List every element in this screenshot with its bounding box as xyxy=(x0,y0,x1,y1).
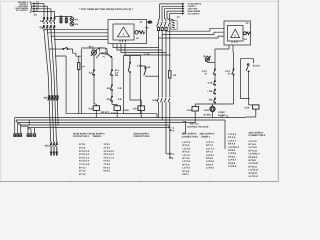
svg-text:U SEC: U SEC xyxy=(218,111,225,114)
wire aux tap xyxy=(55,16,73,18)
contact B5b xyxy=(208,97,215,104)
wire tap T1 xyxy=(50,36,108,37)
contact B7 xyxy=(246,64,260,72)
wire right rung bottom xyxy=(195,75,233,106)
svg-text:N↱B.6: N↱B.6 xyxy=(228,155,236,158)
enclosure box B xyxy=(124,56,141,114)
svg-text:-B5: -B5 xyxy=(208,99,213,102)
svg-text:L1↱PE2.4: L1↱PE2.4 xyxy=(249,153,261,156)
svg-text:N↱8.4: N↱8.4 xyxy=(206,163,213,166)
wire K12 rail xyxy=(249,72,253,105)
wire ctrl branch b stepped xyxy=(69,49,81,56)
transducer T1 xyxy=(108,20,147,44)
svg-text:AC SUPPLY: AC SUPPLY xyxy=(16,9,29,12)
coil K11 xyxy=(88,106,100,114)
svg-text:CONNECTOR-1: CONNECTOR-1 xyxy=(182,135,200,138)
svg-text:CONTROL VOLTAGE: CONTROL VOLTAGE xyxy=(187,126,209,129)
svg-text:-K5: -K5 xyxy=(106,98,111,101)
contact K14 right xyxy=(225,68,234,76)
svg-text:-B: -B xyxy=(204,73,207,76)
CT T2 xyxy=(147,16,180,24)
contact sensor out xyxy=(101,53,112,57)
wire Q5 out2 xyxy=(162,31,224,35)
frame left border xyxy=(0,1,2,181)
svg-text:PE↱7: PE↱7 xyxy=(183,173,190,176)
terminal row left xyxy=(14,134,36,137)
fuse F2 xyxy=(65,18,67,24)
wire ctl drop3 xyxy=(165,31,167,96)
svg-text:1A: 1A xyxy=(244,38,247,41)
wire right rail top xyxy=(214,60,216,68)
svg-text:L1↱A.9: L1↱A.9 xyxy=(249,146,258,149)
label block BOARD A xyxy=(15,1,32,13)
wire L3 drop xyxy=(50,9,52,18)
svg-text:TIMER-1: TIMER-1 xyxy=(92,135,102,138)
svg-text:CONTACTOR-2: CONTACTOR-2 xyxy=(133,135,150,138)
header 230V timer-1 xyxy=(200,133,215,139)
wire ladder bottom rail xyxy=(66,114,157,118)
svg-text:TIMER-1: TIMER-1 xyxy=(201,135,211,138)
svg-text:-M 1~: -M 1~ xyxy=(88,45,95,48)
svg-text:5↱3.1 4.6: 5↱3.1 4.6 xyxy=(79,156,90,159)
wire box B rail xyxy=(130,73,141,106)
arrester F5 xyxy=(70,18,79,22)
wire L3 in xyxy=(32,6,51,9)
junction dots T1 sec xyxy=(158,47,170,56)
svg-text:0↱4.6: 0↱4.6 xyxy=(79,173,86,176)
svg-text:L1↱B.14: L1↱B.14 xyxy=(249,175,259,178)
terminal list A xyxy=(79,143,90,176)
svg-text:-K13: -K13 xyxy=(132,108,138,111)
svg-text:7↱4.1 5.2: 7↱4.1 5.2 xyxy=(79,163,90,166)
coil K13 xyxy=(132,106,144,114)
enclosure box D xyxy=(240,59,253,99)
svg-text:5.B: 5.B xyxy=(118,98,122,101)
contact R2 c xyxy=(106,95,112,102)
svg-text:L1↱A.5: L1↱A.5 xyxy=(228,133,237,136)
svg-text:-C14: -C14 xyxy=(201,70,207,73)
contact LS2 xyxy=(141,66,160,77)
switch S4 xyxy=(39,18,55,24)
svg-text:CONNECTOR-2: CONNECTOR-2 xyxy=(249,134,267,137)
svg-text:3↱2.3 4.2: 3↱2.3 4.2 xyxy=(79,150,90,153)
wire stub N xyxy=(169,129,174,132)
svg-text:L1↱5.5: L1↱5.5 xyxy=(183,160,192,163)
wire L1 in xyxy=(32,1,44,4)
svg-text:-W5: -W5 xyxy=(44,145,49,148)
wire Q5 out3 xyxy=(158,31,224,38)
wire ctl drop2 xyxy=(161,35,163,97)
svg-text:N↱B.9: N↱B.9 xyxy=(249,159,257,162)
svg-text:L1↱2.5: L1↱2.5 xyxy=(183,141,192,144)
svg-text:4↱2.5 4.4: 4↱2.5 4.4 xyxy=(79,153,90,156)
svg-text:4↱5.4 6.4: 4↱5.4 6.4 xyxy=(104,153,115,156)
svg-text:L1↱B.10: L1↱B.10 xyxy=(249,162,259,165)
svg-text:9↱6.5: 9↱6.5 xyxy=(104,170,111,173)
header 230V connector-1 xyxy=(182,133,200,139)
sensor M2 xyxy=(203,55,215,63)
svg-text:1A: 1A xyxy=(136,37,139,40)
wire bus end t6 xyxy=(34,128,36,134)
wire bus end t5 xyxy=(28,128,31,134)
svg-text:N↱8.2: N↱8.2 xyxy=(206,157,213,160)
svg-text:230V AC: 230V AC xyxy=(190,123,199,126)
svg-text:8↱6.4: 8↱6.4 xyxy=(104,166,111,169)
wire rail R2 top xyxy=(111,57,113,68)
wire T1 sec 3 xyxy=(121,44,166,54)
svg-text:10 SEC: 10 SEC xyxy=(203,114,211,117)
svg-text:N↱A.6: N↱A.6 xyxy=(228,136,236,139)
wire tap T1 xyxy=(43,29,108,30)
fuse-switch Q8 xyxy=(43,96,58,101)
wire bus drop right xyxy=(224,120,226,149)
svg-text:N↱5.6: N↱5.6 xyxy=(183,163,190,166)
wire board B drop 5 xyxy=(170,14,174,21)
svg-text:N↱6.8: N↱6.8 xyxy=(183,170,190,173)
arrester F4 xyxy=(171,21,177,30)
wire L2 in xyxy=(32,4,48,7)
svg-text:N↱4.8: N↱4.8 xyxy=(183,157,190,160)
contact R2 b xyxy=(106,84,112,91)
svg-text:4.B: 4.B xyxy=(118,87,122,90)
header main supply timer-1 xyxy=(89,132,105,138)
svg-text:N↱B.11: N↱B.11 xyxy=(249,165,258,168)
contact B1 xyxy=(128,56,142,73)
svg-text:L1↱8.5: L1↱8.5 xyxy=(206,167,215,170)
svg-text:1.B2: 1.B2 xyxy=(137,65,143,68)
wire board B drop 2 xyxy=(161,6,163,20)
svg-text:N↱A.8: N↱A.8 xyxy=(228,143,236,146)
wire R2 m2 xyxy=(112,91,117,106)
coil K15 xyxy=(111,106,130,115)
svg-text:1.A: 1.A xyxy=(115,71,119,74)
svg-text:6↱6.2: 6↱6.2 xyxy=(104,160,111,163)
svg-text:2↱5.2: 2↱5.2 xyxy=(104,147,111,150)
wire phase drop 2 xyxy=(48,31,54,142)
svg-text:N↱7.2: N↱7.2 xyxy=(206,144,213,147)
wire R1 lower xyxy=(94,76,96,106)
svg-text:L1↱8.1: L1↱8.1 xyxy=(206,154,215,157)
svg-text:-C14: -C14 xyxy=(225,70,231,73)
svg-text:2↱2.2: 2↱2.2 xyxy=(79,147,86,150)
terminal list B xyxy=(104,143,115,172)
wire phase drop 4 xyxy=(55,31,59,125)
wire R2 m1 xyxy=(111,76,113,84)
wire ctrl branch xyxy=(48,48,62,49)
wire board B line 4 xyxy=(167,10,201,13)
L out terminal labels xyxy=(169,153,175,160)
svg-text:L1↱6.7: L1↱6.7 xyxy=(183,167,192,170)
wire phase drop 1 xyxy=(44,31,51,142)
svg-text:-K12: -K12 xyxy=(244,107,250,110)
svg-text:6↱3.3 5.0: 6↱3.3 5.0 xyxy=(79,160,90,163)
wire drop x29 xyxy=(28,120,30,125)
wire Q5 out1 xyxy=(165,28,224,31)
svg-text:L1↱A.5: L1↱A.5 xyxy=(249,140,258,143)
wire board B line 5 xyxy=(170,12,201,15)
enclosure box A xyxy=(81,48,106,114)
svg-text:1.LS2: 1.LS2 xyxy=(144,53,151,56)
wire N in xyxy=(32,9,55,12)
wire T1 sec 1 xyxy=(113,44,159,49)
fuse F8 xyxy=(169,71,177,97)
svg-text:N↱2.6: N↱2.6 xyxy=(183,144,190,147)
contact S1 xyxy=(88,69,94,76)
wire L2 drop xyxy=(47,6,49,17)
wire PE tail xyxy=(172,20,174,21)
svg-text:A: A xyxy=(123,32,125,36)
wire bus end t2 xyxy=(16,120,18,134)
coil K16 timer xyxy=(203,106,226,117)
wire bus end t3 xyxy=(18,123,20,134)
svg-text:L1↱B.7: L1↱B.7 xyxy=(228,159,237,162)
wire board B line 1 xyxy=(160,3,202,6)
wire board B drop 1 xyxy=(159,4,160,20)
svg-text:230V SUPPLY: 230V SUPPLY xyxy=(249,131,264,134)
svg-text:CONTACTOR-1: CONTACTOR-1 xyxy=(73,135,90,138)
svg-text:N↱A.6: N↱A.6 xyxy=(249,143,257,146)
wire L out2 xyxy=(169,125,172,158)
frame tick marks xyxy=(70,180,210,182)
coil K14 xyxy=(186,106,198,122)
wire tap T1 xyxy=(47,32,108,33)
bus line 1 xyxy=(15,117,246,119)
svg-text:L1↱PE1.3: L1↱PE1.3 xyxy=(228,146,240,149)
wire board B line 3 xyxy=(165,8,198,11)
wire bus end t4 xyxy=(21,125,28,134)
contact R2 a xyxy=(110,69,119,77)
contact B5a xyxy=(207,88,215,95)
wire bus end t1 xyxy=(14,118,16,134)
svg-text:-C16: -C16 xyxy=(207,81,213,84)
text control voltage xyxy=(187,123,209,129)
terminal list E xyxy=(228,133,240,168)
transducer T3 xyxy=(224,21,251,45)
wire board B line 2 xyxy=(162,5,196,8)
wire ctl tails xyxy=(159,103,170,127)
svg-text:PE↱B.8: PE↱B.8 xyxy=(249,156,258,159)
svg-text:1↱5.1: 1↱5.1 xyxy=(104,143,111,146)
switch Q9 xyxy=(44,142,58,156)
svg-text:L1↱4.7: L1↱4.7 xyxy=(183,154,192,157)
svg-text:N↱B.4: N↱B.4 xyxy=(228,149,236,152)
wire N drop xyxy=(54,11,56,17)
svg-text:L1↱3.5: L1↱3.5 xyxy=(183,147,192,150)
header main supply contactor-1 xyxy=(73,132,90,138)
svg-text:+ B5: + B5 xyxy=(207,90,213,93)
svg-text:8↱4.3: 8↱4.3 xyxy=(79,166,86,169)
svg-text:230V SUPPLY: 230V SUPPLY xyxy=(182,133,197,136)
svg-text:230V SUPPLY: 230V SUPPLY xyxy=(200,133,215,136)
svg-text:-K2: -K2 xyxy=(106,87,111,90)
svg-text:1↱2.1: 1↱2.1 xyxy=(79,143,86,146)
svg-text:3↱5.3 6.2: 3↱5.3 6.2 xyxy=(104,150,115,153)
wire L1 drop xyxy=(43,4,45,18)
fuse F1 xyxy=(59,15,63,24)
svg-text:L1↱8.3: L1↱8.3 xyxy=(206,160,215,163)
wire stub L1 xyxy=(165,126,175,129)
wire ctl drop1 xyxy=(158,38,160,97)
svg-text:-Q8: -Q8 xyxy=(43,96,48,99)
svg-text:L1↱B.12: L1↱B.12 xyxy=(249,169,259,172)
svg-text:AC SUPPLY: AC SUPPLY xyxy=(188,12,201,15)
svg-text:AL1: AL1 xyxy=(115,69,120,72)
bracket 230V xyxy=(183,121,186,133)
svg-text:B1 NO: B1 NO xyxy=(253,65,260,68)
terminal list F xyxy=(249,140,261,178)
contact C16 xyxy=(207,79,215,86)
wire T3 out2 xyxy=(232,45,235,68)
wire board B drop 4 xyxy=(167,11,170,20)
svg-text:L1↱B.5: L1↱B.5 xyxy=(228,152,237,155)
svg-text:5↱6.1 7.2: 5↱6.1 7.2 xyxy=(104,156,115,159)
arrester F6 xyxy=(70,22,79,26)
svg-text:-B: -B xyxy=(227,73,230,76)
frame top border xyxy=(0,0,279,2)
sensor M1 xyxy=(88,45,97,58)
wire return drop xyxy=(55,55,66,113)
svg-text:4 SEC: 4 SEC xyxy=(111,112,118,115)
svg-text:* FOR TIMER SETTING REFER NOTE: * FOR TIMER SETTING REFER NOTE (#GH 3) * xyxy=(79,8,133,11)
svg-text:-Q5: -Q5 xyxy=(145,27,150,30)
wire phase drop 3 xyxy=(51,31,56,142)
svg-text:-K14: -K14 xyxy=(186,109,192,112)
svg-text:N↱A.10: N↱A.10 xyxy=(249,149,258,152)
flag symbol under T1 xyxy=(96,48,107,59)
frame bottom border xyxy=(0,180,279,182)
svg-text:A: A xyxy=(234,34,236,37)
terminal list D xyxy=(206,141,215,170)
svg-text:N↱B.13: N↱B.13 xyxy=(249,172,258,175)
svg-text:L1↱7.3: L1↱7.3 xyxy=(206,147,215,150)
wire coil drops to bus xyxy=(96,114,141,118)
bus line 3 xyxy=(18,122,195,124)
contact C14 xyxy=(201,68,215,76)
wire T3 out1 xyxy=(215,45,229,60)
fuse F7 xyxy=(78,56,86,114)
svg-text:L1↱A.7: L1↱A.7 xyxy=(228,139,237,142)
contacts K16 group xyxy=(152,97,170,104)
wire board B drop 3 xyxy=(165,9,167,20)
bus line 4 xyxy=(21,124,170,126)
header main supply contactor-2 xyxy=(133,132,150,138)
svg-text:-K16: -K16 xyxy=(204,109,210,112)
wire ctl drop4 xyxy=(169,28,171,71)
bus line 2 xyxy=(16,119,225,121)
svg-text:2.B: 2.B xyxy=(115,74,119,77)
svg-text:N↱7.4: N↱7.4 xyxy=(206,151,213,154)
svg-text:7↱6.3: 7↱6.3 xyxy=(104,163,111,166)
header 230V connector-2 xyxy=(249,131,267,137)
coil K12 xyxy=(244,105,259,118)
wire L out1 xyxy=(166,128,171,154)
wire rail R1 top xyxy=(93,58,95,69)
svg-text:L1↱7.1: L1↱7.1 xyxy=(206,141,215,144)
contact K1 branch xyxy=(63,47,69,49)
svg-text:9↱4.5: 9↱4.5 xyxy=(79,170,86,173)
svg-text:L1↱B.9: L1↱B.9 xyxy=(228,165,237,168)
bus line 5 xyxy=(28,127,166,129)
svg-text:N↱B.8: N↱B.8 xyxy=(228,162,236,165)
terminal list C xyxy=(183,141,192,176)
junction dots bus xyxy=(49,117,213,126)
wire right rail mid xyxy=(214,75,216,79)
wire T1 sec 4 xyxy=(125,44,170,56)
wire tap T1 xyxy=(54,39,108,40)
wire T1 sec 2 xyxy=(117,44,162,51)
breaker Q5 xyxy=(145,20,170,31)
svg-text:-S1: -S1 xyxy=(88,72,92,75)
frame right border xyxy=(277,0,279,181)
svg-text:N↱3.6: N↱3.6 xyxy=(183,151,190,154)
